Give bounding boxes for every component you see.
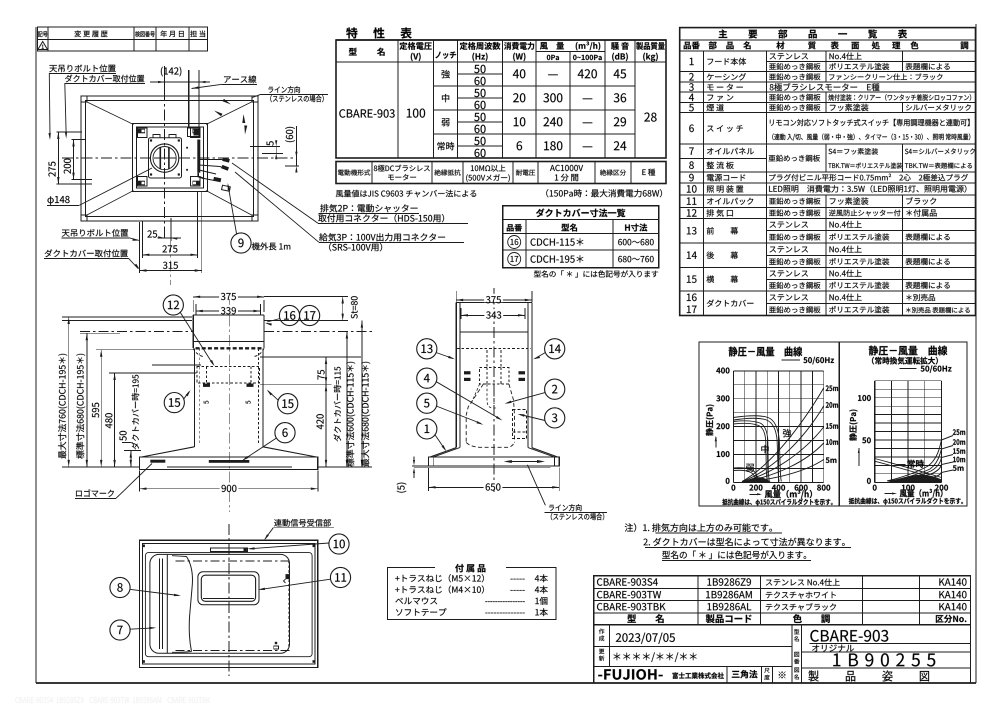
drawing number 1B90255 xyxy=(833,653,935,666)
top view corner pads xyxy=(81,96,87,102)
front chimney solid sides xyxy=(193,348,195,447)
model name CBARE-903 xyxy=(810,630,888,642)
product row CBARE-903S4 xyxy=(597,578,658,585)
cords to connectors xyxy=(199,158,222,160)
right dim 標準寸法600 xyxy=(346,332,348,467)
characteristics bottom strip xyxy=(336,162,666,184)
parts row 10 照明装置 xyxy=(687,185,697,193)
rectifier panel rounded rect xyxy=(150,554,290,653)
hood body corner bolt pads xyxy=(138,128,148,138)
dim 343 side xyxy=(461,314,525,316)
dim 315 bottom xyxy=(163,262,178,269)
revision triangle mark 1 xyxy=(38,42,48,50)
balloon 6 xyxy=(275,423,295,443)
FUJIOH logo xyxy=(598,669,662,680)
side fan scroll dashed xyxy=(466,384,483,443)
logo mark bar xyxy=(150,460,165,463)
balloon 10 xyxy=(329,534,349,554)
line direction arrow side xyxy=(507,461,542,463)
parts row 2 ケーシング xyxy=(689,73,694,80)
accessory 1本 xyxy=(396,608,446,616)
parts row 6 スイッチ xyxy=(689,124,694,132)
note 2 xyxy=(643,538,844,546)
balloon 12 xyxy=(163,295,183,315)
side balloons left xyxy=(417,339,437,359)
bottom chain lines xyxy=(176,560,291,562)
right graph title xyxy=(869,346,948,356)
常時 curve xyxy=(875,459,942,478)
right dim 420 xyxy=(325,384,327,467)
dim 375 front top xyxy=(192,300,194,312)
balloon 8 xyxy=(110,577,130,597)
right graph note xyxy=(849,498,963,505)
oil pack curved panel xyxy=(166,555,168,653)
top view outer frame xyxy=(81,96,258,221)
hinge marks right xyxy=(286,574,291,579)
accessories box xyxy=(388,568,557,620)
char row 中 xyxy=(442,94,449,102)
parts row 15 横幕 xyxy=(766,278,975,280)
duct cover lower edge bold dashed xyxy=(196,347,263,349)
label φ148 xyxy=(47,196,69,205)
note under characteristics xyxy=(336,190,476,197)
small drain mark bottom xyxy=(274,646,279,649)
front view centerline xyxy=(228,296,230,512)
drawing title 製品姿図 xyxy=(808,670,929,681)
dim 275 bottom xyxy=(162,245,177,252)
title block 型名 label xyxy=(794,629,799,634)
right x axis title xyxy=(885,493,895,495)
dim (142) top xyxy=(161,67,181,77)
title block 図番 label xyxy=(794,652,799,657)
product table header row xyxy=(627,614,663,623)
fan curve strong xyxy=(733,416,781,482)
labels 排気2P 給気3P xyxy=(320,204,417,212)
right graph grid xyxy=(874,381,876,483)
dim 25 xyxy=(147,230,157,237)
オリジナル xyxy=(812,644,854,651)
title block 図名 label xyxy=(794,668,799,673)
char row 強 xyxy=(441,70,449,78)
title block frame xyxy=(594,625,971,683)
parts row 9 電源コード xyxy=(689,174,694,182)
dim (60) right xyxy=(285,127,295,142)
dim 275 vertical left xyxy=(57,131,83,133)
curve labels 強 中 弱 xyxy=(783,429,791,437)
dim 375 side xyxy=(455,291,457,302)
label ライン方向 top right xyxy=(268,86,299,93)
balloons 15 xyxy=(164,393,184,413)
earth wire vertical xyxy=(188,70,190,129)
title block 更新 row xyxy=(599,649,604,654)
bottom labels ダクトカバー取付位置 xyxy=(45,249,128,257)
title block 尺度 xyxy=(764,668,769,673)
left graph grid xyxy=(732,371,734,482)
parts row 11 オイルパック xyxy=(687,197,697,204)
left graph title xyxy=(729,347,803,357)
characteristics table xyxy=(336,40,666,158)
side balloons right xyxy=(545,339,565,359)
top view fold diagonals xyxy=(86,102,134,125)
power cord bold line xyxy=(197,140,200,173)
parts row 3 モーター xyxy=(689,83,694,91)
tiny 5 marks front xyxy=(204,401,209,404)
top view hood body rect xyxy=(133,124,208,192)
title block ※ xyxy=(779,671,786,678)
dim (5) side xyxy=(397,483,407,493)
revision history table xyxy=(38,27,208,51)
lamp unit xyxy=(198,572,259,605)
balloon 9 cord length xyxy=(231,233,251,253)
label 天吊りボルト位置 top xyxy=(49,64,115,72)
side lamp dashed rect xyxy=(513,409,527,438)
right ダクトカバー時=115 xyxy=(334,367,342,442)
parts rows 7-8 オイルパネル 整流板 xyxy=(680,157,767,159)
top view centerlines xyxy=(62,157,296,159)
bottom labels 天吊りボルト位置 xyxy=(62,229,128,237)
balloons 16 17 xyxy=(279,305,299,325)
balloon 7 xyxy=(110,620,130,640)
front extension line levels xyxy=(62,320,192,322)
left dim 595 xyxy=(100,350,102,467)
switch bar xyxy=(209,460,250,463)
product row CBARE-903TW xyxy=(597,591,661,598)
right resistance curves xyxy=(887,436,953,482)
accessory 4本 xyxy=(395,574,484,582)
parts row 5 煙道 xyxy=(689,104,694,111)
accessory 1個 xyxy=(395,597,437,604)
right curve end labels xyxy=(953,429,965,435)
fan curve mid xyxy=(733,421,769,482)
side view centerline xyxy=(493,288,495,492)
balloon 11 xyxy=(330,567,350,587)
dim 650 xyxy=(428,468,430,491)
label アース線 xyxy=(224,75,256,83)
receiver bar xyxy=(210,548,247,551)
parts rows 16-17 ダクトカバー xyxy=(766,303,975,305)
right graph labels xyxy=(858,395,871,401)
side bolt marks xyxy=(464,371,471,374)
side inner dashed details xyxy=(487,384,498,408)
left y axis title xyxy=(706,405,714,436)
label ライン方向 side xyxy=(549,504,581,511)
accessory 4本 xyxy=(395,585,484,593)
duct resistance curves left xyxy=(742,388,824,482)
right dim 最大寸法680 xyxy=(361,321,363,467)
front view duct cover (16/17) xyxy=(192,315,194,348)
left graph note xyxy=(722,499,832,506)
label ロゴマーク xyxy=(76,489,114,497)
product variation table xyxy=(594,576,971,625)
left dim chain: 最大寸法760 xyxy=(68,317,70,467)
top view bottom extension lines xyxy=(139,222,141,273)
label 連動信号受信部 xyxy=(274,519,331,527)
parts row 13 前幕 xyxy=(766,230,975,232)
dim St=80 right xyxy=(264,296,348,298)
left dim 480 xyxy=(114,373,116,467)
note 3 xyxy=(662,551,806,559)
parts row 1 フード本体 xyxy=(766,61,975,63)
title block 三角法 xyxy=(732,670,758,678)
duct damper bars xyxy=(159,148,161,169)
duct opening circle xyxy=(150,144,178,172)
graphs box xyxy=(699,342,967,506)
dark curve bundle bottom xyxy=(891,475,942,482)
front canopy xyxy=(142,447,195,457)
note 1 xyxy=(625,523,772,532)
left x axis title xyxy=(750,493,761,495)
connector plugs bold xyxy=(222,157,230,162)
parts row 4 ファン xyxy=(689,94,694,101)
left dim 標準寸法680 xyxy=(86,333,88,467)
常時 label xyxy=(907,460,923,468)
label ダクトカバー取付位置 top xyxy=(65,75,144,83)
title block 作成 row xyxy=(599,629,604,634)
sheet frame xyxy=(35,27,37,683)
side canopy xyxy=(430,448,456,457)
parts row 14 後幕 xyxy=(766,254,975,256)
left graph axis labels xyxy=(716,368,729,374)
connector box top right xyxy=(187,128,199,136)
duct cover size table xyxy=(503,206,659,268)
fan curve weak xyxy=(733,468,758,482)
product row CBARE-903TBK xyxy=(597,603,665,610)
parts row 12 排気口 xyxy=(687,209,697,216)
left dim 50 xyxy=(130,451,132,467)
side duct connection dashed xyxy=(480,367,509,384)
dim 900 xyxy=(139,471,141,492)
bottom view outer rects xyxy=(140,540,318,667)
duct pad top tabs xyxy=(153,135,160,138)
dim 339 front xyxy=(195,304,197,315)
left curve end labels xyxy=(826,385,838,391)
bracket screws xyxy=(203,384,210,387)
front chimney hidden dashed sides xyxy=(199,348,201,445)
right y axis title xyxy=(849,410,857,441)
line-direction arrows in top view xyxy=(214,111,223,117)
bottom view centerline xyxy=(228,524,230,676)
char row 常時 xyxy=(437,142,454,150)
faint bottom text xyxy=(15,697,210,703)
dim 5 right xyxy=(267,141,274,146)
main parts list table xyxy=(680,28,976,316)
duct mount pad xyxy=(149,138,182,178)
dim 200 vertical left xyxy=(72,139,86,141)
duct cover bracket dashed rect xyxy=(197,366,259,383)
right dim 75 xyxy=(325,357,327,384)
characteristics table title 特性表 xyxy=(346,27,412,38)
side view chimney xyxy=(455,303,457,448)
char row 弱 xyxy=(442,118,450,126)
left ダクトカバー時=195 xyxy=(132,375,140,450)
bottom corner dots xyxy=(142,545,145,548)
